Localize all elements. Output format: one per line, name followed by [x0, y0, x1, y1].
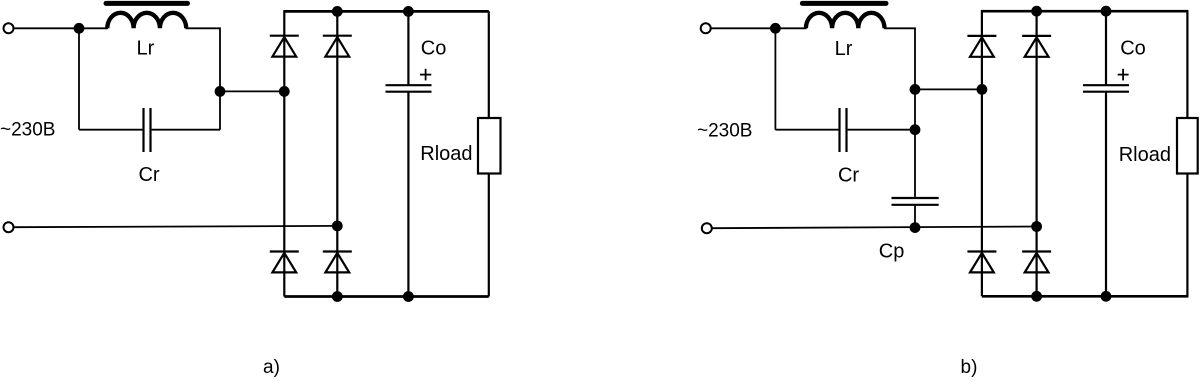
svg-text:Lr: Lr: [835, 38, 853, 60]
svg-text:Rload: Rload: [1119, 144, 1171, 166]
svg-text:Cr: Cr: [138, 164, 159, 186]
svg-text:Co: Co: [421, 38, 447, 60]
svg-text:Cr: Cr: [838, 164, 859, 186]
svg-text:a): a): [263, 357, 280, 378]
svg-text:Lr: Lr: [137, 37, 155, 59]
svg-text:~230В: ~230В: [697, 121, 752, 142]
svg-text:Co: Co: [1120, 38, 1146, 60]
svg-text:Cp: Cp: [879, 241, 905, 263]
svg-text:b): b): [961, 357, 978, 378]
svg-text:~230В: ~230В: [0, 120, 55, 141]
svg-text:Rload: Rload: [420, 143, 472, 165]
